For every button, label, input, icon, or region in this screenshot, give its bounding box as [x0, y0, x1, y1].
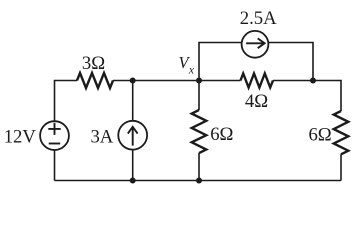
wire: right branch bottom segment — [340, 154, 342, 180]
svg-text:3Ω: 3Ω — [82, 53, 105, 74]
junction node: middle branch bottom — [196, 178, 202, 184]
svg-text:4Ω: 4Ω — [245, 91, 268, 112]
junction node Vx — [196, 78, 202, 84]
wire: bottom bus — [55, 180, 342, 182]
wire: 2.5A loop right segment down to right node — [268, 43, 313, 81]
svg-text:3A: 3A — [90, 127, 113, 148]
resistor R3 6ohm middle — [192, 110, 207, 153]
resistor R4 6ohm right — [334, 111, 349, 154]
current source I1 3A (arrow up) — [118, 121, 147, 150]
wire: 3A branch top segment — [132, 81, 134, 122]
wire: 2.5A loop left vertical from Vx node — [199, 43, 242, 81]
svg-text:6Ω: 6Ω — [308, 124, 331, 145]
svg-text:2.5A: 2.5A — [240, 8, 277, 29]
current source I2 2.5A (arrow right) — [242, 31, 269, 58]
svg-text:6Ω: 6Ω — [210, 124, 233, 145]
voltage source V1 12V — [40, 121, 69, 150]
wire: left branch top (12V source to top-left corner to 3-ohm resistor) — [55, 81, 78, 122]
wire: middle branch top (Vx node to 6-ohm) — [198, 81, 200, 111]
resistor R1 3ohm — [77, 73, 113, 88]
junction node: 3A branch bottom — [130, 178, 136, 184]
wire: middle branch bottom segment — [198, 153, 200, 180]
wire: left branch bottom (12V source to bottom bus) — [54, 150, 56, 181]
junction node: 2.5A / 4-ohm right — [310, 78, 316, 84]
wire: 3A branch bottom segment — [132, 149, 134, 180]
wire: top bus from Vx node to 4-ohm resistor — [199, 80, 241, 82]
wire: top bus from 4-ohm to top-right corner — [273, 81, 341, 112]
resistor R2 4ohm — [241, 74, 274, 88]
svg-text:x: x — [188, 65, 195, 77]
svg-text:12V: 12V — [4, 127, 37, 148]
junction node: 3A branch top — [130, 78, 136, 84]
wire: top bus from 3-ohm to Vx node — [113, 80, 199, 82]
